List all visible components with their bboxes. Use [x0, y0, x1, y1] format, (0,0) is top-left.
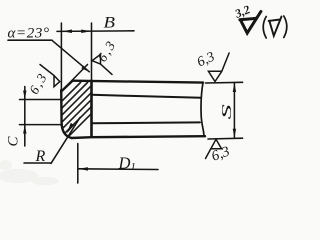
- svg-text:6,3: 6,3: [94, 38, 118, 64]
- svg-text:C: C: [6, 136, 22, 147]
- svg-text:D1: D1: [118, 154, 136, 174]
- svg-text:S: S: [219, 103, 235, 119]
- svg-text:6,3: 6,3: [195, 50, 217, 71]
- svg-text:R: R: [35, 148, 46, 165]
- svg-text:6,3: 6,3: [26, 71, 50, 97]
- svg-text:B: B: [104, 15, 116, 32]
- svg-text:α=23°: α=23°: [8, 25, 50, 41]
